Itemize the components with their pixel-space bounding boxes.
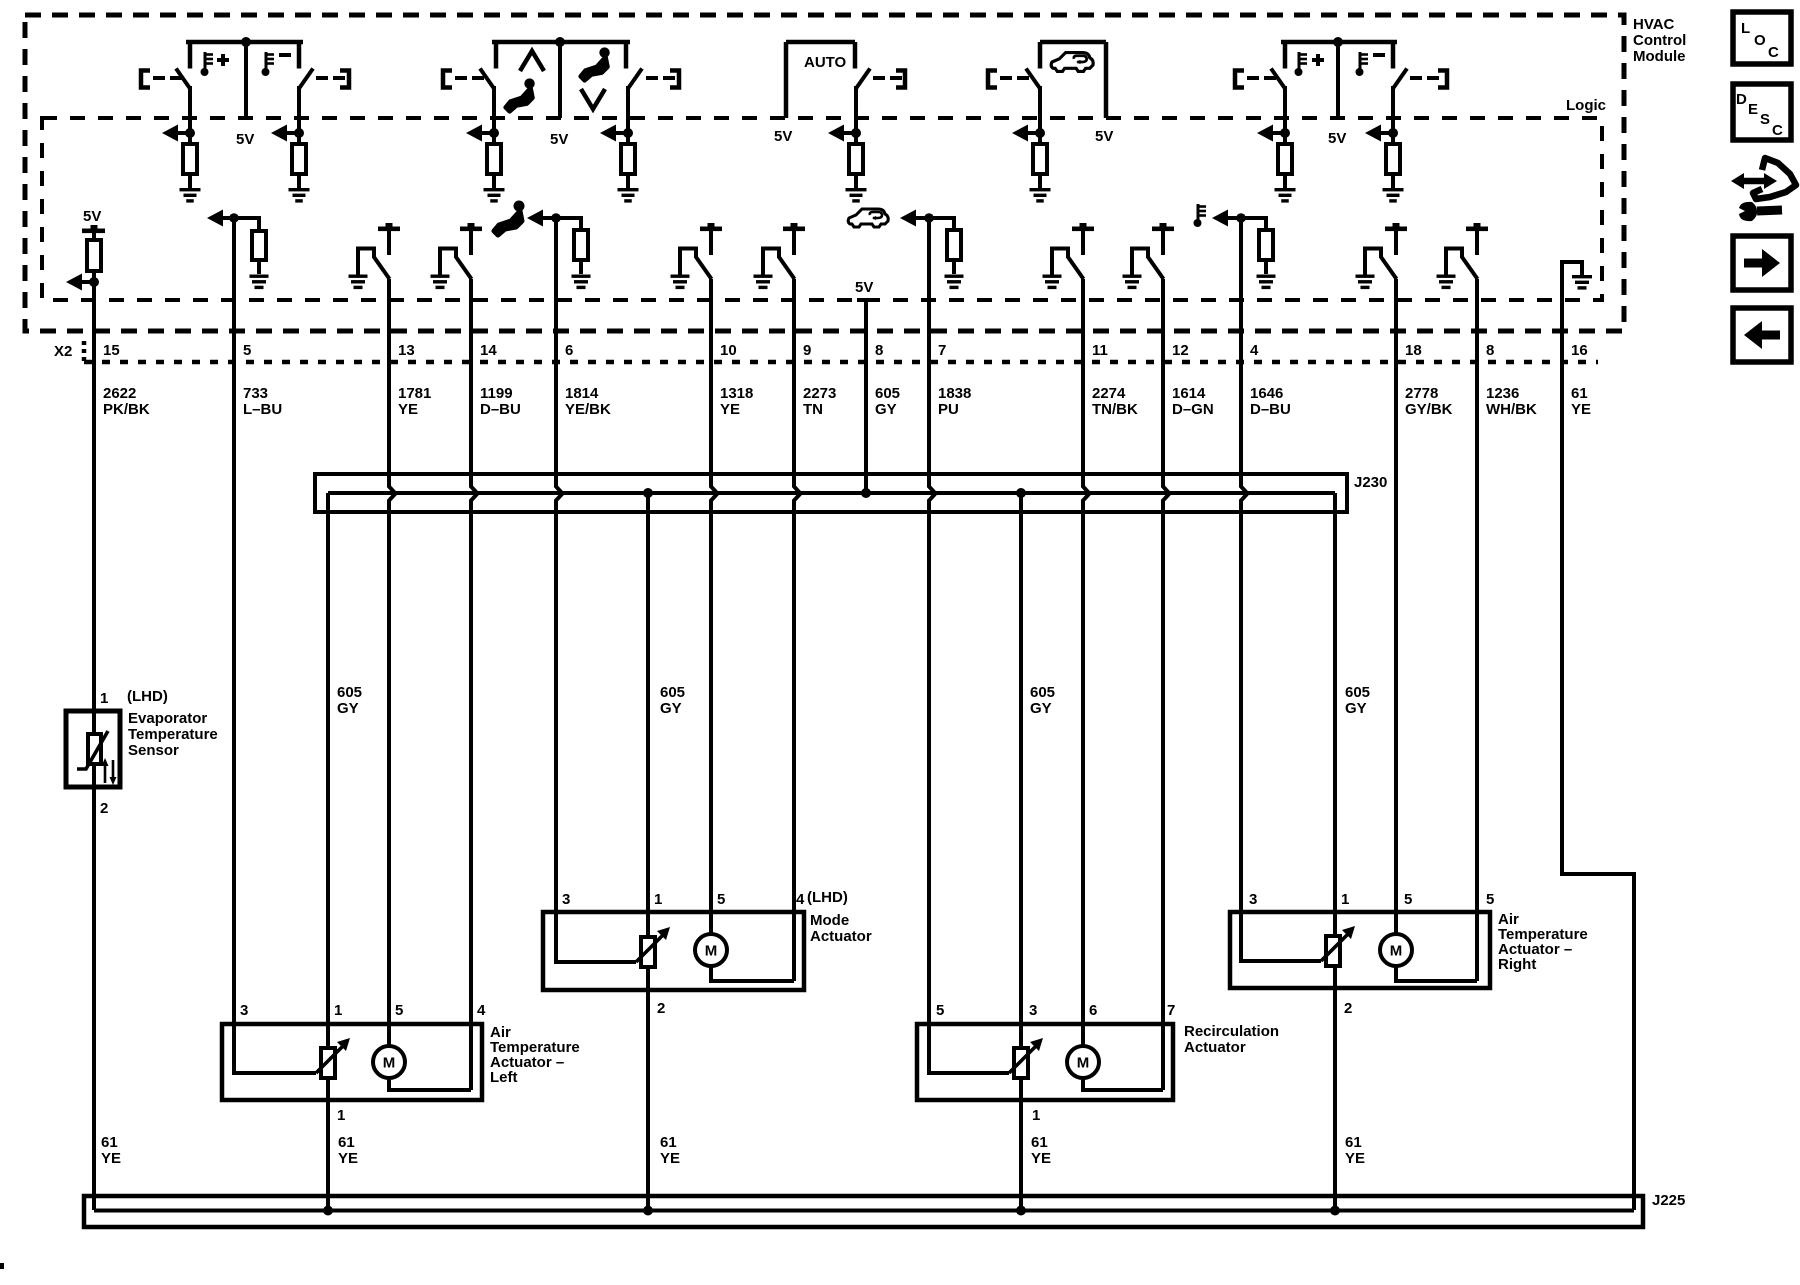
junction [1016,1206,1026,1216]
svg-text:L–BU: L–BU [243,401,282,418]
signal arrow [1365,125,1393,142]
svg-text:8: 8 [875,342,883,359]
svg-text:61: 61 [660,1134,677,1151]
wire [952,216,956,230]
5V supply tick [460,223,482,231]
junction [185,128,195,138]
switch arm [480,69,494,89]
switch arm [1271,69,1285,89]
ground [1572,275,1592,290]
pull-up resistor [292,144,306,174]
motor return wire [1081,1026,1163,1090]
Evaporator Temperature Sensor box [66,711,120,787]
ground [1043,275,1062,290]
ground [572,275,591,290]
junction [861,488,871,498]
switch group: left temperature +/- top bar [186,42,303,69]
motor return wire [709,914,794,981]
svg-text:5V: 5V [236,131,254,148]
svg-text:C: C [1768,44,1779,61]
dashed link [1000,76,1029,80]
svg-text:Right: Right [1498,956,1536,973]
svg-text:5: 5 [1486,891,1494,908]
forward arrow box [1733,236,1791,290]
svg-text:16: 16 [1571,342,1588,359]
switch contact to ground [1363,247,1397,280]
signal arrow [271,125,299,142]
pull-up resistor [1278,144,1292,174]
svg-text:1: 1 [1032,1107,1040,1124]
svg-text:61: 61 [1345,1134,1362,1151]
ground [671,275,690,290]
Mode Actuator label [810,912,872,945]
ground [289,188,310,203]
svg-text:Actuator: Actuator [1184,1039,1246,1056]
motor M [1380,934,1412,966]
svg-text:3: 3 [1249,891,1257,908]
svg-text:YE: YE [398,401,418,418]
junction [1388,128,1398,138]
switch contact to ground [438,247,472,280]
junction [1035,128,1045,138]
ground [618,188,639,203]
switch arm [1393,69,1407,89]
minus sign [279,53,291,57]
wire label 733 L–BU [243,385,282,418]
svg-text:61: 61 [101,1134,118,1151]
wire label 1236 WH/BK [1486,385,1537,418]
ground [349,275,368,290]
svg-text:Control: Control [1633,32,1686,49]
signal arrow [600,125,628,142]
X2 connector dotted line [84,360,1598,365]
Air Temperature Actuator - Right box [1230,912,1490,988]
wire [297,174,301,188]
junction [241,37,251,47]
svg-text:1: 1 [100,690,108,707]
plus sign [1312,54,1324,66]
pull-up resistor [487,144,501,174]
wire label 1646 D–BU [1250,385,1291,418]
switch group: air delivery mode top bar [492,42,630,69]
svg-text:L: L [1741,20,1750,37]
dash tap [857,298,874,302]
AUTO switch frame [786,42,855,118]
wire label 61 YE [101,1134,121,1167]
svg-text:3: 3 [1029,1002,1037,1019]
svg-text:YE: YE [338,1150,358,1167]
wire label 605 GY [660,684,685,717]
position potentiometer [636,927,670,967]
svg-text:(LHD): (LHD) [807,889,848,906]
svg-text:605: 605 [1030,684,1055,701]
switch contact to ground [1444,247,1478,280]
svg-text:3: 3 [562,891,570,908]
pull-up resistor [621,144,635,174]
position potentiometer [1009,1038,1043,1078]
page artifact speck [0,1263,4,1269]
wire [188,86,192,144]
flow arrows [102,758,117,785]
svg-text:1646: 1646 [1250,385,1283,402]
internal ground branch [1560,260,1584,276]
HVAC Control Module dashed enclosure [25,15,1624,331]
5V supply tick [700,223,722,231]
wire [1161,231,1165,255]
wire [1163,279,1170,1026]
Recirculation Actuator label [1184,1023,1279,1056]
HVAC Control Module label [1633,16,1686,65]
svg-text:5V: 5V [550,131,568,148]
pin labels 3 1 5 4 [240,1002,486,1019]
wire [794,279,801,914]
switch contact to ground [1130,247,1164,280]
wire label 2274 TN/BK [1092,385,1138,418]
signal arrow [527,210,581,227]
thermometer icon [1356,52,1369,76]
svg-text:PK/BK: PK/BK [103,401,150,418]
J225 bus wire [94,1209,1634,1213]
wire label 61 YE [660,1134,680,1167]
svg-text:2: 2 [1344,1000,1352,1017]
LOC reference box [1733,12,1791,64]
signal arrow [1212,210,1266,227]
svg-text:1: 1 [334,1002,342,1019]
svg-text:YE: YE [720,401,740,418]
wire pin5 feed [927,1026,1009,1073]
switch contact to ground [678,247,712,280]
wire [952,260,956,274]
svg-text:YE: YE [1031,1150,1051,1167]
svg-text:D–BU: D–BU [480,401,521,418]
dashed link [873,76,902,80]
junction [229,213,239,223]
svg-text:WH/BK: WH/BK [1486,401,1537,418]
svg-text:J230: J230 [1354,474,1387,491]
junction [1330,1206,1340,1216]
svg-text:605: 605 [337,684,362,701]
signal arrow [828,125,856,142]
svg-text:M: M [1077,1055,1090,1072]
pin labels 5 3 6 7 [936,1002,1175,1019]
wire [1283,174,1287,188]
svg-text:5: 5 [936,1002,944,1019]
wire label 1199 D–BU [480,385,521,418]
svg-text:YE: YE [660,1150,680,1167]
junction [643,1206,653,1216]
svg-text:4: 4 [477,1002,486,1019]
svg-text:3: 3 [240,1002,248,1019]
car recirculation icon [1051,53,1093,72]
switch arm [628,69,642,89]
minus sign [1373,53,1385,57]
svg-text:4: 4 [1250,342,1259,359]
wire label 1838 PU [938,385,971,418]
wire 2622 upper [92,271,96,711]
junction [643,488,653,498]
ground [431,275,450,290]
dashed link [316,76,345,80]
5V supply tick [1385,223,1407,231]
wire [257,260,261,274]
svg-text:HVAC: HVAC [1633,16,1675,33]
5V supply tick [1072,223,1094,231]
svg-text:5: 5 [243,342,251,359]
svg-text:6: 6 [1089,1002,1097,1019]
wire [492,174,496,188]
switch group: right temperature +/- top bar [1281,42,1397,69]
signal arrow [1012,125,1040,142]
wire label 1614 D–GN [1172,385,1214,418]
ground [846,188,867,203]
svg-text:C: C [1772,122,1783,139]
wire pin6 to motor [1081,1026,1085,1046]
ground [1275,188,1296,203]
svg-text:Module: Module [1633,48,1686,65]
wire [387,231,391,255]
wire [257,216,261,231]
connector bracket [340,71,349,88]
J225 splice pack outline [84,1196,1643,1227]
svg-text:Actuator: Actuator [810,928,872,945]
junction [1280,128,1290,138]
dashed link [1247,76,1276,80]
svg-text:GY: GY [875,401,897,418]
svg-text:61: 61 [1571,385,1588,402]
svg-text:2622: 2622 [103,385,136,402]
svg-text:GY: GY [1030,700,1052,717]
wire pin3 feed [1239,914,1321,961]
motor return wire [387,1026,471,1090]
5V supply tick [1152,223,1174,231]
5V feed wire [558,42,562,118]
Recirculation Actuator box [917,1024,1173,1100]
junction [323,1206,333,1216]
5V supply tick [783,223,805,231]
wire [389,279,396,1026]
Air Temperature Actuator - Right label [1498,911,1588,973]
svg-text:1814: 1814 [565,385,599,402]
wire label 2622 PK/BK [103,385,150,418]
svg-text:YE/BK: YE/BK [565,401,611,418]
svg-text:2274: 2274 [1092,385,1126,402]
junction [851,128,861,138]
svg-text:E: E [1748,101,1758,118]
svg-text:14: 14 [480,342,497,359]
Air Temperature Actuator - Left box [222,1024,482,1100]
wire label 61 YE [1571,385,1591,418]
pull-up resistor [183,144,197,174]
junction [1333,37,1343,47]
wire pin5 to motor [709,914,713,934]
ground [1257,275,1276,290]
svg-text:1838: 1838 [938,385,971,402]
svg-text:M: M [383,1055,396,1072]
svg-text:5V: 5V [1328,130,1346,147]
svg-text:GY: GY [1345,700,1367,717]
svg-text:GY: GY [337,700,359,717]
svg-text:TN: TN [803,401,823,418]
wire 605 GY branch to left actuator [326,493,330,1212]
dashed link [1410,76,1439,80]
wire [709,231,713,255]
svg-text:5V: 5V [855,279,873,296]
wire label 605 GY [875,385,900,418]
wire [929,218,936,1026]
switch contact to ground [761,247,795,280]
wire [1083,279,1090,1026]
svg-text:4: 4 [796,891,805,908]
Mode Actuator box [543,912,804,990]
diagnostic tools icon [1731,158,1796,221]
back arrow box [1733,308,1791,362]
pull-up resistor [849,144,863,174]
plus sign [217,54,229,66]
bias resistor [947,230,961,260]
seat occupant icon [494,201,525,236]
svg-text:61: 61 [338,1134,355,1151]
svg-text:2: 2 [100,800,108,817]
svg-text:5: 5 [1404,891,1412,908]
wire [579,260,583,274]
wire label 1814 YE/BK [565,385,611,418]
svg-text:605: 605 [1345,684,1370,701]
wire [1081,231,1085,255]
svg-text:2273: 2273 [803,385,836,402]
pin labels 3 1 5 4 (LHD) [562,889,848,908]
junction [1016,488,1026,498]
wire [1038,174,1042,188]
junction [924,213,934,223]
wire pin5 to motor [387,1026,391,1046]
wire label 2273 TN [803,385,836,418]
svg-text:13: 13 [398,342,415,359]
Air Temperature Actuator - Left label [490,1024,580,1086]
wire label 605 GY [337,684,362,717]
motor M [373,1046,405,1078]
chevron arrow [581,89,605,109]
switch arm S-temp-down [299,69,313,89]
wire 733 L-BU [232,218,236,1026]
ground [1437,275,1456,290]
wire label 605 GY [1030,684,1055,717]
wire [1475,231,1479,255]
J230 bus wire [328,491,1335,495]
junction [623,128,633,138]
wire through sensor [92,711,96,787]
junction [89,277,99,287]
DESC reference box [1733,84,1791,140]
signal arrow [900,210,954,227]
connector bracket [443,71,452,88]
svg-text:Temperature: Temperature [128,726,218,743]
bias resistor [1259,230,1273,260]
connector tick [82,341,87,362]
svg-text:YE: YE [1571,401,1591,418]
recirculation switch frame [1040,42,1106,118]
junction [551,213,561,223]
svg-text:Recirculation: Recirculation [1184,1023,1279,1040]
resistor to pin 15 [87,240,101,271]
ground [180,188,201,203]
switch arm [1026,69,1040,89]
chevron arrow [520,51,544,71]
pin numbers [103,342,1588,359]
svg-text:1614: 1614 [1172,385,1206,402]
svg-text:5: 5 [717,891,725,908]
wire 605 GY branch to mode actuator [646,493,650,1212]
wire [471,279,478,1026]
wire [711,279,718,914]
wire label 61 YE [338,1134,358,1167]
svg-text:5V: 5V [1095,128,1113,145]
ground [1030,188,1051,203]
connector bracket [670,71,679,88]
svg-text:D–GN: D–GN [1172,401,1214,418]
wire 2778 GY/BK [1394,279,1398,914]
svg-text:18: 18 [1405,342,1422,359]
svg-text:GY: GY [660,700,682,717]
wire 2622 PK/BK [92,787,96,1210]
svg-text:X2: X2 [54,343,72,360]
motor M [695,934,727,966]
pin labels 3 1 5 5 [1249,891,1494,908]
dashed link [455,76,484,80]
svg-text:M: M [705,943,718,960]
wire label 605 GY [1345,684,1370,717]
switch contact to ground [1050,247,1084,280]
svg-text:5: 5 [395,1002,403,1019]
junction [1236,213,1246,223]
wire [1241,218,1248,914]
svg-text:O: O [1754,32,1766,49]
switch arm S-temp-up [176,69,190,89]
svg-text:1: 1 [654,891,662,908]
signal arrow [1257,125,1285,142]
wire [792,231,796,255]
wire [1264,260,1268,274]
svg-text:M: M [1390,943,1403,960]
switch contact to ground [356,247,390,280]
svg-text:1: 1 [337,1107,345,1124]
wire [1283,86,1287,144]
svg-text:1199: 1199 [480,385,513,402]
junction [555,37,565,47]
svg-text:Evaporator: Evaporator [128,710,207,727]
wire [1264,216,1268,230]
car recirculation icon [848,209,888,227]
svg-text:10: 10 [720,342,737,359]
svg-text:733: 733 [243,385,268,402]
svg-text:S: S [1760,111,1770,128]
junction [489,128,499,138]
svg-text:1318: 1318 [720,385,753,402]
svg-text:15: 15 [103,342,120,359]
signal arrow [207,210,259,227]
Logic dashed box [42,118,1602,300]
svg-text:6: 6 [565,342,573,359]
connector bracket [896,71,905,88]
wire [92,233,96,240]
svg-text:5V: 5V [774,128,792,145]
wire [1391,174,1395,188]
svg-text:YE: YE [1345,1150,1365,1167]
dashed link [153,76,182,80]
wire pin3 feed [554,914,636,962]
5V supply tick [1466,223,1488,231]
thermometer icon [262,52,275,76]
wire [188,174,192,188]
